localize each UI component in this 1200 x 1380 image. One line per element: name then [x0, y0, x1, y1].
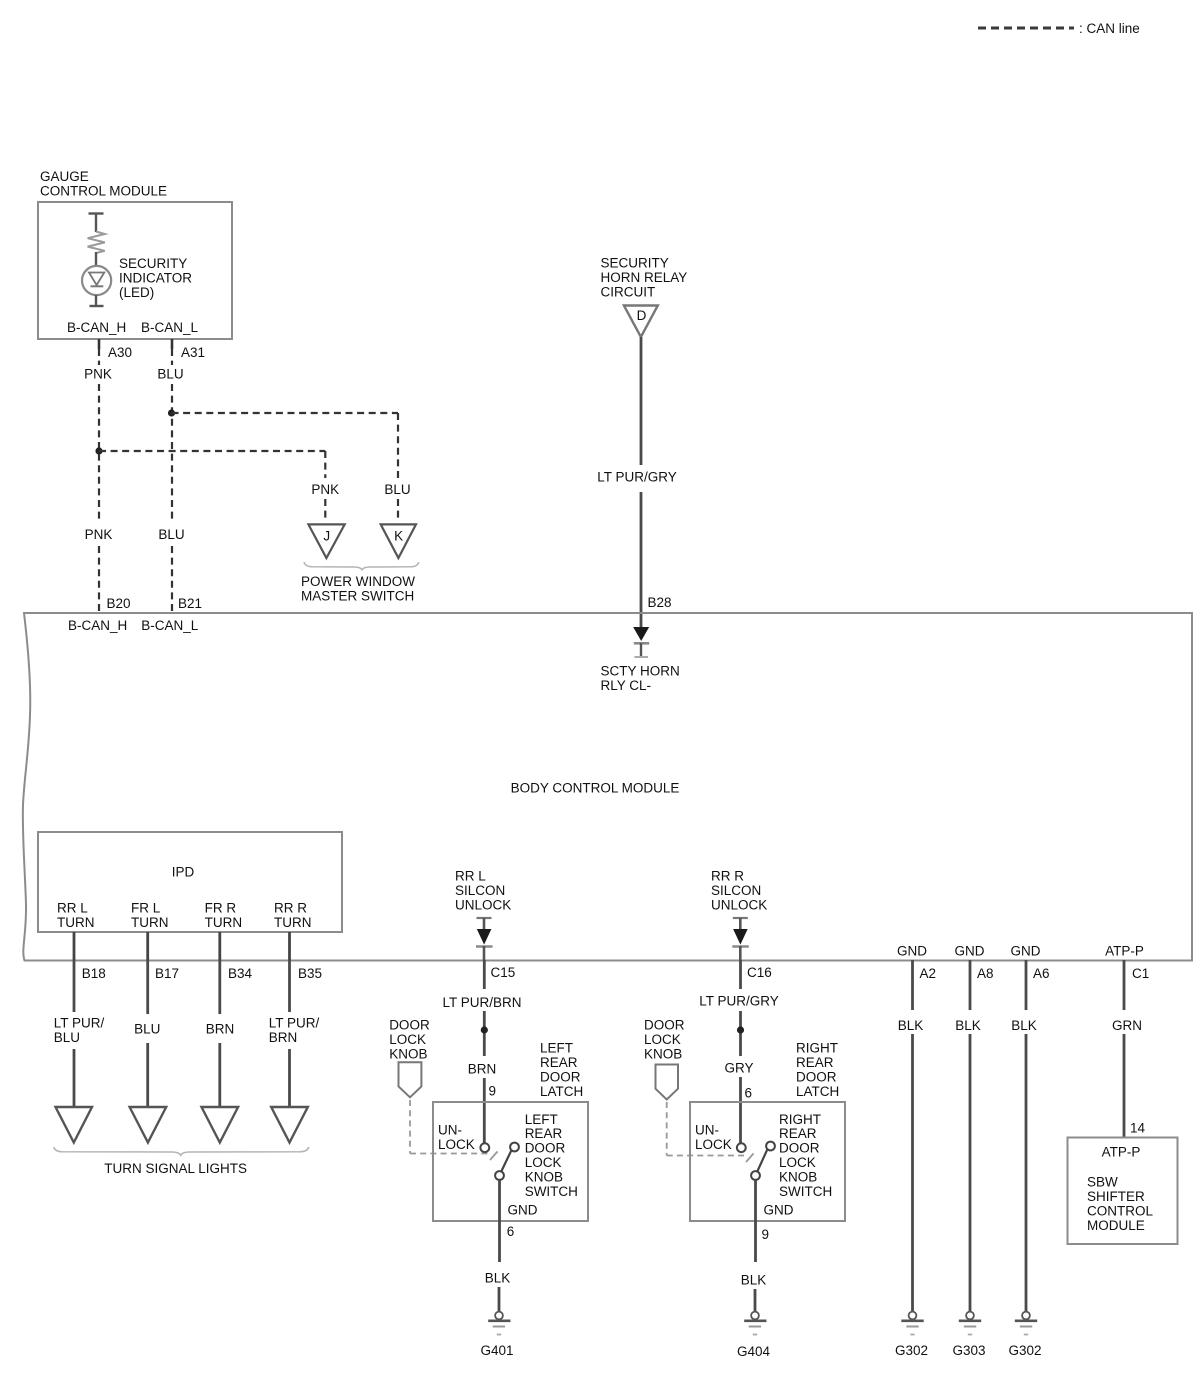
IPD box — [38, 832, 342, 932]
svg-text:LT PUR/GRY: LT PUR/GRY — [699, 994, 779, 1009]
svg-text:CIRCUIT: CIRCUIT — [601, 285, 656, 300]
svg-text:DOOR: DOOR — [796, 1070, 837, 1085]
svg-text:J: J — [323, 529, 330, 544]
resistor (internal, security indicator series) — [89, 212, 104, 214]
connector D triangle — [624, 306, 658, 338]
svg-text:KNOB: KNOB — [389, 1047, 427, 1062]
svg-text:LOCK: LOCK — [779, 1155, 816, 1170]
wire LT PUR/GRY (D to B28) — [640, 337, 643, 465]
wire B-CAN_L BLU (A31 to B21, dashed CAN) — [171, 349, 173, 365]
svg-text:9: 9 — [489, 1084, 497, 1099]
svg-text:POWER WINDOW: POWER WINDOW — [301, 574, 415, 589]
SBW shifter control module box — [1068, 1138, 1178, 1245]
svg-text:LOCK: LOCK — [438, 1137, 475, 1152]
wire LT PUR/BLU (B18 to turn signal) — [73, 960, 76, 1012]
svg-text:A31: A31 — [181, 345, 205, 360]
junction node on C15 wire — [481, 1026, 488, 1033]
ground G401 — [495, 1312, 503, 1320]
wire RR R TURN (IPD to B35) — [288, 932, 291, 960]
svg-text:MASTER SWITCH: MASTER SWITCH — [301, 589, 414, 604]
CAN line legend dashed sample — [978, 27, 1074, 30]
svg-text:BLK: BLK — [898, 1018, 924, 1033]
wire FR R TURN (IPD to B34) — [218, 932, 221, 960]
door lock knob connector pentagon (left) — [399, 1062, 422, 1097]
internal driver arrow RR R SILCON UNLOCK — [733, 917, 748, 919]
svg-text:PNK: PNK — [311, 482, 339, 497]
wire switch to pin 9 — [754, 1180, 757, 1262]
svg-text:UNLOCK: UNLOCK — [455, 898, 511, 913]
svg-text:GRN: GRN — [1112, 1018, 1142, 1033]
svg-text:FR R: FR R — [205, 901, 237, 916]
svg-text:G303: G303 — [952, 1343, 985, 1358]
svg-text:LEFT: LEFT — [540, 1041, 573, 1056]
svg-text:SECURITY: SECURITY — [601, 256, 669, 271]
svg-text:DOOR: DOOR — [540, 1070, 581, 1085]
svg-text:ATP-P: ATP-P — [1102, 1145, 1141, 1160]
svg-text:BLU: BLU — [384, 482, 410, 497]
svg-text:LOCK: LOCK — [644, 1032, 681, 1047]
wire BLK (A6 to G302) — [1025, 960, 1028, 1010]
internal driver arrow SCTY HORN RLY CL- — [640, 614, 643, 628]
svg-text:BLK: BLK — [741, 1273, 767, 1288]
svg-text:LATCH: LATCH — [796, 1084, 839, 1099]
left rear door latch box — [433, 1102, 588, 1221]
svg-text:SWITCH: SWITCH — [525, 1184, 578, 1199]
wire CAN branch BLU to K (dashed) — [172, 412, 399, 414]
junction node on PNK line — [95, 447, 102, 454]
svg-text:B34: B34 — [228, 966, 253, 981]
svg-text:REAR: REAR — [779, 1126, 817, 1141]
wire switch to pin 6 — [498, 1180, 501, 1262]
svg-text:6: 6 — [507, 1224, 515, 1239]
svg-text:GAUGE: GAUGE — [40, 169, 89, 184]
turn signal light arrow 2 — [130, 1107, 167, 1143]
svg-text:K: K — [394, 529, 403, 544]
svg-text:A30: A30 — [108, 345, 132, 360]
svg-text:SILCON: SILCON — [455, 883, 505, 898]
wire FR L TURN (IPD to B17) — [146, 932, 149, 960]
ground G302 — [909, 1312, 917, 1320]
svg-text:SWITCH: SWITCH — [779, 1184, 832, 1199]
pin A31 stub — [171, 339, 174, 349]
svg-text:A2: A2 — [920, 966, 937, 981]
mechanical link dashed (right knob to switch) — [666, 1102, 668, 1156]
svg-text:PNK: PNK — [85, 527, 113, 542]
svg-text:B28: B28 — [648, 595, 672, 610]
svg-text:C15: C15 — [491, 965, 516, 980]
wire GRN (C1 to SBW module) — [1123, 960, 1126, 1010]
svg-text:DOOR: DOOR — [644, 1018, 685, 1033]
svg-text:INDICATOR: INDICATOR — [119, 271, 192, 286]
svg-text:B-CAN_H: B-CAN_H — [67, 320, 126, 335]
svg-text:BLU: BLU — [54, 1030, 80, 1045]
svg-text:UNLOCK: UNLOCK — [711, 898, 767, 913]
svg-text:B-CAN_L: B-CAN_L — [141, 618, 199, 633]
connector J triangle (power window master switch) — [308, 524, 344, 558]
door lock knob connector pentagon (right) — [656, 1065, 679, 1100]
svg-text:PNK: PNK — [84, 367, 112, 382]
svg-text:DOOR: DOOR — [525, 1141, 566, 1156]
wire BRN (B34 to turn signal) — [218, 960, 221, 1014]
svg-text:B18: B18 — [82, 966, 106, 981]
body control module box (wavy left edge) — [23, 613, 1192, 961]
pin A30 stub — [98, 339, 101, 349]
svg-text:REAR: REAR — [525, 1126, 563, 1141]
svg-text:B20: B20 — [107, 596, 131, 611]
svg-text:REAR: REAR — [796, 1055, 834, 1070]
svg-text:LT PUR/: LT PUR/ — [54, 1016, 105, 1031]
svg-text:BRN: BRN — [468, 1062, 497, 1077]
svg-text:DOOR: DOOR — [389, 1018, 430, 1033]
turn signal light arrow 1 — [56, 1107, 93, 1143]
svg-text:GND: GND — [764, 1203, 794, 1218]
wire RR L TURN (IPD to B18) — [73, 932, 76, 960]
wire BLK (A2 to G302) — [911, 960, 914, 1010]
wire BLK (A8 to G303) — [969, 960, 972, 1010]
turn signal light arrow 4 — [271, 1107, 308, 1143]
svg-text:GND: GND — [897, 944, 927, 959]
svg-text:DOOR: DOOR — [779, 1141, 820, 1156]
svg-text:BODY CONTROL MODULE: BODY CONTROL MODULE — [511, 781, 680, 796]
svg-text:BLK: BLK — [1011, 1018, 1037, 1033]
svg-text:MODULE: MODULE — [1087, 1218, 1145, 1233]
svg-text:B17: B17 — [155, 966, 179, 981]
svg-text:CONTROL: CONTROL — [1087, 1204, 1153, 1219]
svg-text:BLK: BLK — [955, 1018, 981, 1033]
junction node on C16 wire — [737, 1026, 744, 1033]
svg-text:RR R: RR R — [711, 869, 744, 884]
svg-text:RIGHT: RIGHT — [796, 1041, 838, 1056]
turn signal light arrow 3 — [202, 1107, 239, 1143]
svg-text:UN-: UN- — [695, 1123, 719, 1138]
svg-text:C1: C1 — [1132, 966, 1149, 981]
svg-text:G404: G404 — [737, 1344, 771, 1359]
right rear door latch box — [690, 1102, 845, 1221]
svg-text:SHIFTER: SHIFTER — [1087, 1189, 1145, 1204]
svg-text:IPD: IPD — [172, 865, 195, 880]
svg-text:B-CAN_H: B-CAN_H — [68, 618, 127, 633]
svg-text:B21: B21 — [178, 596, 202, 611]
mechanical link dashed (left knob to switch) — [409, 1100, 411, 1154]
wire LT PUR/BRN (B35 to turn signal) — [288, 960, 291, 1012]
svg-text:RLY CL-: RLY CL- — [601, 678, 652, 693]
svg-text:HORN RELAY: HORN RELAY — [601, 270, 688, 285]
svg-text:GND: GND — [1011, 944, 1041, 959]
svg-text:B35: B35 — [298, 966, 322, 981]
svg-text:TURN: TURN — [274, 915, 312, 930]
svg-text:BRN: BRN — [269, 1030, 298, 1045]
svg-text:REAR: REAR — [540, 1055, 578, 1070]
svg-text:SILCON: SILCON — [711, 883, 761, 898]
svg-text:C16: C16 — [747, 965, 772, 980]
right door lock knob switch S2 — [737, 1143, 746, 1152]
svg-text:SCTY HORN: SCTY HORN — [601, 664, 680, 679]
LED security indicator D1 — [82, 266, 111, 295]
wire BLU (B17 to turn signal) — [146, 960, 149, 1014]
svg-text:6: 6 — [745, 1086, 753, 1101]
ground G404 — [751, 1312, 759, 1320]
svg-text:ATP-P: ATP-P — [1105, 944, 1144, 959]
svg-text:14: 14 — [1130, 1121, 1146, 1136]
svg-text:LOCK: LOCK — [525, 1155, 562, 1170]
wire LT PUR/BRN (C15 to latch) — [483, 960, 486, 989]
brace under turn signal arrows — [54, 1147, 309, 1155]
svg-text:GND: GND — [508, 1203, 538, 1218]
svg-text:A8: A8 — [977, 966, 994, 981]
left door lock knob switch S1 — [480, 1143, 489, 1152]
svg-text:B-CAN_L: B-CAN_L — [141, 320, 199, 335]
svg-text:BLU: BLU — [134, 1022, 160, 1037]
svg-text:LT PUR/GRY: LT PUR/GRY — [597, 470, 677, 485]
svg-text:A6: A6 — [1033, 966, 1050, 981]
junction node on BLU line — [168, 409, 175, 416]
svg-text:LOCK: LOCK — [695, 1137, 732, 1152]
gauge control module box U1 — [38, 202, 232, 339]
svg-text:KNOB: KNOB — [525, 1169, 563, 1184]
svg-text:RR L: RR L — [455, 869, 486, 884]
svg-text:SBW: SBW — [1087, 1175, 1118, 1190]
svg-text:RR R: RR R — [274, 901, 307, 916]
ground G302 — [1022, 1312, 1030, 1320]
svg-text:RR L: RR L — [57, 901, 88, 916]
svg-text:UN-: UN- — [438, 1123, 462, 1138]
svg-text:D: D — [637, 308, 647, 323]
svg-text:TURN SIGNAL LIGHTS: TURN SIGNAL LIGHTS — [104, 1161, 247, 1176]
svg-text:GRY: GRY — [724, 1061, 753, 1076]
svg-text:TURN: TURN — [57, 915, 95, 930]
svg-text:LOCK: LOCK — [389, 1032, 426, 1047]
ground G303 — [966, 1312, 974, 1320]
svg-text:KNOB: KNOB — [779, 1169, 817, 1184]
svg-text:TURN: TURN — [205, 915, 243, 930]
svg-text:CONTROL MODULE: CONTROL MODULE — [40, 184, 167, 199]
wire LT PUR/GRY (C16 to latch) — [739, 960, 742, 989]
wire B-CAN_H PNK (A30 to B20, dashed CAN) — [98, 349, 100, 365]
svg-text:GND: GND — [955, 944, 985, 959]
svg-text:SECURITY: SECURITY — [119, 256, 187, 271]
svg-text:LT PUR/BRN: LT PUR/BRN — [442, 995, 521, 1010]
connector K triangle (power window master switch) — [381, 524, 416, 558]
brace under J and K — [304, 562, 419, 570]
svg-text:BLU: BLU — [158, 527, 184, 542]
svg-text:(LED): (LED) — [119, 285, 154, 300]
svg-text:KNOB: KNOB — [644, 1047, 682, 1062]
svg-text:9: 9 — [762, 1227, 770, 1242]
svg-text:G302: G302 — [895, 1343, 928, 1358]
internal driver arrow RR L SILCON UNLOCK — [477, 917, 492, 919]
svg-text:BRN: BRN — [206, 1022, 235, 1037]
svg-text:LATCH: LATCH — [540, 1084, 583, 1099]
svg-text:LT PUR/: LT PUR/ — [269, 1016, 320, 1031]
svg-text:FR L: FR L — [131, 901, 161, 916]
svg-text:BLK: BLK — [485, 1271, 511, 1286]
svg-text:LEFT: LEFT — [525, 1112, 558, 1127]
svg-text:G302: G302 — [1008, 1343, 1041, 1358]
svg-text:TURN: TURN — [131, 915, 169, 930]
svg-text:BLU: BLU — [157, 367, 183, 382]
svg-text:RIGHT: RIGHT — [779, 1112, 821, 1127]
svg-text:: CAN line: : CAN line — [1079, 21, 1140, 36]
svg-text:G401: G401 — [480, 1343, 513, 1358]
wire CAN branch PNK to J (dashed) — [99, 450, 325, 452]
